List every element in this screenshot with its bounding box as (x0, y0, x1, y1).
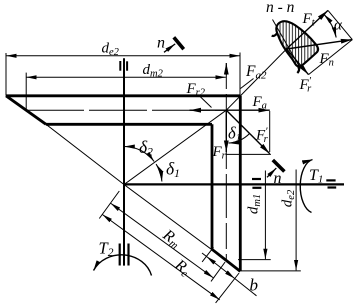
shaft mark right end (326, 179, 335, 181)
force F_t (287, 10, 329, 49)
svg-text:F′r: F′r (255, 126, 269, 146)
b dimension witness (202, 247, 213, 262)
section mark n bottom (273, 160, 285, 172)
svg-text:b: b (250, 276, 259, 295)
gear 2 left cone slant (6, 96, 46, 125)
pinion axis (horizontal centerline) (124, 183, 344, 185)
force parallelogram lines (328, 10, 352, 39)
tooth root flick (272, 33, 278, 36)
b dimension line (202, 253, 206, 256)
dimension d_e2 right (295, 170, 297, 271)
shaft mark mid right (252, 178, 261, 180)
force Fa2 dashed up arrow (225, 63, 227, 75)
section mark n top (174, 37, 184, 49)
svg-text:α: α (334, 18, 343, 34)
tooth tip flick (297, 66, 299, 74)
section trace line P to tooth (226, 49, 286, 110)
pinion pitch dash line / Fa2 line (225, 63, 227, 261)
shaft mark bottom (T2 shaft) (119, 244, 121, 266)
R_m witness at mid face (211, 262, 225, 281)
svg-text:n: n (157, 35, 165, 52)
pinion bottom slant (212, 249, 240, 271)
small delta1 arc at P (229, 134, 250, 144)
svg-text:F′r: F′r (299, 75, 313, 95)
delta1 arc (156, 164, 162, 181)
pinion left edge (211, 124, 214, 249)
mid-face line apex to slant midpoint M (124, 185, 226, 261)
pinion right edge (239, 96, 242, 272)
gear 2 bottom edge (46, 123, 212, 126)
R_e witness at corner (216, 273, 240, 303)
svg-text:n - n: n - n (266, 0, 295, 16)
dimension d_e2 top (6, 55, 240, 57)
force F_n (287, 40, 353, 49)
R_e dimension line (102, 214, 220, 299)
force Fr' arrow (mesh) (226, 110, 269, 154)
pitch cone line P to apex (124, 110, 226, 184)
thin slant extension to apex (46, 124, 124, 184)
gear 2 top edge (6, 94, 240, 97)
dimension d_m1 (264, 171, 266, 260)
tooth profile (276, 21, 318, 66)
force Fa arrow (226, 109, 269, 111)
shaft mark top (gear 2 shaft) (119, 61, 121, 71)
gear 2 axis (vertical centerline) (123, 58, 125, 265)
apex witness line (99, 191, 119, 219)
force Fr arrow (225, 110, 227, 152)
dimension d_m2 (26, 76, 226, 78)
svg-text:n: n (274, 170, 282, 187)
force F_r' section (287, 49, 309, 75)
tooth axis line (273, 20, 301, 69)
force rectangle witness lines (269, 111, 271, 152)
alpha arc (324, 14, 336, 37)
gear 2 pitch dash line (26, 109, 226, 111)
R_m dimension line (111, 203, 214, 278)
delta2 arc (124, 147, 154, 162)
force Fr2 arrow (190, 109, 227, 111)
